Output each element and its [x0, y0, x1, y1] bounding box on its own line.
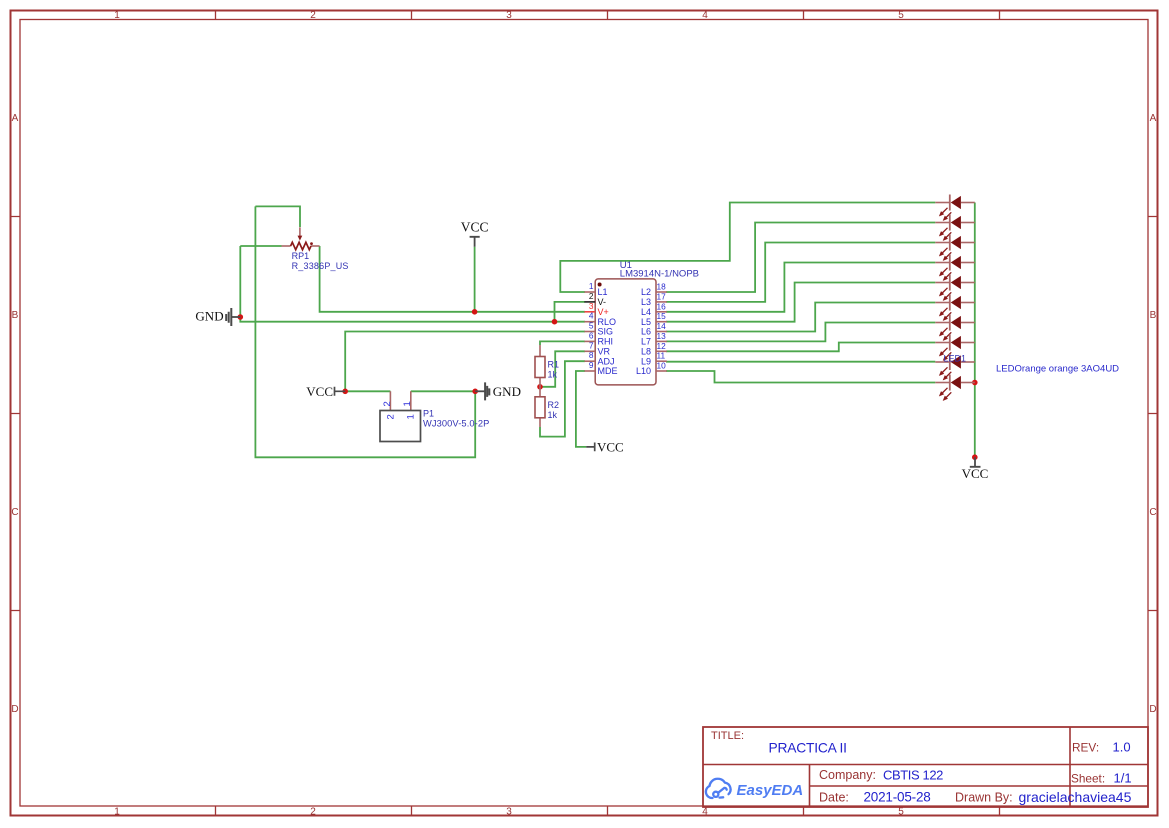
svg-text:D: D — [1149, 704, 1156, 715]
svg-text:L7: L7 — [641, 337, 651, 347]
svg-text:R2: R2 — [548, 400, 560, 410]
svg-text:L9: L9 — [641, 356, 651, 366]
svg-text:1k: 1k — [548, 370, 558, 380]
svg-text:CBTIS 122: CBTIS 122 — [883, 768, 943, 783]
svg-text:RP1: RP1 — [292, 251, 310, 261]
svg-text:2: 2 — [382, 401, 393, 406]
svg-text:1: 1 — [114, 807, 120, 818]
svg-text:1: 1 — [589, 281, 594, 291]
svg-text:2: 2 — [589, 291, 594, 301]
svg-text:10: 10 — [657, 361, 667, 371]
svg-text:1: 1 — [114, 10, 120, 21]
svg-text:R1: R1 — [548, 360, 560, 370]
svg-text:VCC: VCC — [306, 384, 333, 399]
svg-text:L5: L5 — [641, 317, 651, 327]
svg-text:L6: L6 — [641, 327, 651, 337]
svg-text:5: 5 — [589, 321, 594, 331]
svg-text:18: 18 — [657, 282, 667, 292]
svg-text:A: A — [1150, 113, 1157, 124]
svg-text:A: A — [12, 113, 19, 124]
svg-text:D: D — [11, 704, 18, 715]
svg-text:3: 3 — [506, 10, 512, 21]
svg-text:2: 2 — [310, 10, 316, 21]
svg-text:1.0: 1.0 — [1113, 740, 1131, 755]
svg-text:LED1: LED1 — [944, 354, 967, 364]
svg-text:L2: L2 — [641, 287, 651, 297]
svg-text:LEDOrange orange 3AO4UD: LEDOrange orange 3AO4UD — [996, 364, 1119, 375]
svg-text:17: 17 — [657, 291, 667, 301]
svg-text:L4: L4 — [641, 307, 651, 317]
svg-text:C: C — [11, 507, 18, 518]
svg-text:C: C — [1149, 507, 1156, 518]
svg-text:L8: L8 — [641, 347, 651, 357]
svg-text:L10: L10 — [636, 366, 651, 376]
svg-text:GND: GND — [195, 309, 223, 324]
svg-text:7: 7 — [589, 340, 594, 350]
svg-text:11: 11 — [657, 351, 666, 361]
svg-text:Drawn By:: Drawn By: — [955, 791, 1013, 805]
svg-text:V-: V- — [598, 297, 607, 307]
svg-text:SIG: SIG — [598, 327, 614, 337]
svg-text:15: 15 — [657, 311, 667, 321]
svg-text:L3: L3 — [641, 297, 651, 307]
svg-text:12: 12 — [657, 341, 667, 351]
svg-text:VCC: VCC — [461, 220, 489, 235]
svg-text:2: 2 — [386, 414, 397, 419]
svg-text:1k: 1k — [548, 410, 558, 420]
svg-text:LM3914N-1/NOPB: LM3914N-1/NOPB — [620, 269, 699, 280]
svg-text:EasyEDA: EasyEDA — [737, 782, 804, 799]
svg-text:gracielachaviea45: gracielachaviea45 — [1019, 789, 1132, 805]
svg-text:B: B — [1150, 310, 1157, 321]
svg-text:2021-05-28: 2021-05-28 — [864, 790, 931, 805]
svg-text:2: 2 — [310, 807, 316, 818]
svg-text:REV:: REV: — [1072, 741, 1099, 755]
svg-text:4: 4 — [702, 807, 708, 818]
svg-text:MDE: MDE — [598, 366, 618, 376]
svg-text:16: 16 — [657, 301, 667, 311]
svg-text:1: 1 — [405, 414, 416, 419]
svg-text:PRACTICA II: PRACTICA II — [769, 741, 847, 756]
svg-text:B: B — [12, 310, 19, 321]
svg-text:Company:: Company: — [819, 768, 876, 782]
svg-text:14: 14 — [657, 321, 667, 331]
svg-text:P1: P1 — [423, 409, 434, 419]
svg-text:9: 9 — [589, 360, 594, 370]
svg-text:Sheet:: Sheet: — [1071, 772, 1105, 786]
svg-text:4: 4 — [589, 311, 594, 321]
svg-text:RLO: RLO — [598, 317, 617, 327]
svg-text:1/1: 1/1 — [1114, 771, 1132, 786]
svg-text:V+: V+ — [598, 307, 609, 317]
svg-text:L1: L1 — [598, 287, 608, 297]
svg-text:VCC: VCC — [597, 439, 624, 454]
svg-text:3: 3 — [589, 301, 594, 311]
svg-text:TITLE:: TITLE: — [711, 730, 744, 742]
svg-text:8: 8 — [589, 350, 594, 360]
svg-text:VCC: VCC — [962, 466, 989, 481]
svg-text:VR: VR — [598, 347, 611, 357]
svg-text:1: 1 — [402, 401, 413, 406]
svg-text:13: 13 — [657, 331, 667, 341]
svg-text:ADJ: ADJ — [598, 356, 615, 366]
svg-text:R_3386P_US: R_3386P_US — [292, 261, 349, 271]
svg-text:3: 3 — [506, 807, 512, 818]
svg-text:4: 4 — [702, 10, 708, 21]
svg-text:6: 6 — [589, 330, 594, 340]
svg-text:RHI: RHI — [598, 337, 614, 347]
svg-text:GND: GND — [493, 384, 521, 399]
svg-text:WJ300V-5.0-2P: WJ300V-5.0-2P — [423, 419, 489, 429]
svg-text:5: 5 — [898, 807, 904, 818]
svg-text:Date:: Date: — [819, 791, 849, 805]
svg-text:5: 5 — [898, 10, 904, 21]
